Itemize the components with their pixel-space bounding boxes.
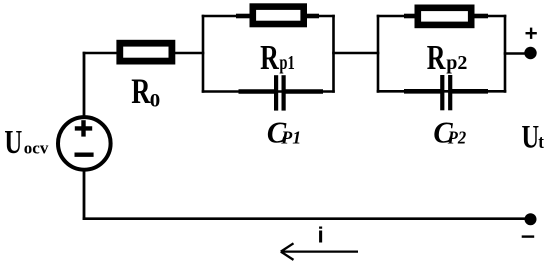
wire: source bottom vertical bbox=[83, 170, 86, 220]
resistor Rp2 bbox=[418, 8, 471, 25]
capacitor Cp2 lead stubs bbox=[404, 89, 441, 94]
wire: R0 to RC block 1 bbox=[173, 52, 204, 55]
node: RC block 1 left vertical bbox=[202, 15, 205, 93]
svg-text:R: R bbox=[260, 38, 279, 77]
wire: top-left horizontal from source to R0 bbox=[83, 52, 122, 55]
svg-text:i: i bbox=[318, 222, 324, 247]
voltage source Uocv circle bbox=[58, 117, 111, 170]
svg-text:R: R bbox=[131, 71, 151, 111]
label Rp2 bbox=[427, 38, 446, 77]
svg-text:p1: p1 bbox=[279, 51, 294, 74]
label Uocv bbox=[4, 125, 22, 161]
resistor R0 bbox=[120, 43, 172, 61]
svg-text:U: U bbox=[4, 125, 22, 161]
wire: RC block 2 bottom rail bbox=[377, 90, 507, 93]
resistor Rp2 lead stubs bbox=[404, 14, 418, 19]
minus sign at terminal bbox=[522, 235, 535, 237]
node: RC block 1 right vertical bbox=[332, 15, 335, 93]
capacitor Cp2 plates bbox=[440, 75, 444, 110]
capacitor Cp1 plates bbox=[274, 75, 278, 110]
label Cp1 bbox=[267, 116, 287, 150]
plus sign inside source bbox=[75, 126, 92, 130]
wire: RC block 2 top rail bbox=[377, 15, 507, 18]
label Rp1 bbox=[260, 38, 279, 77]
svg-text:ocv: ocv bbox=[24, 139, 49, 158]
wire: block 1 to block 2 bbox=[332, 52, 379, 55]
svg-text:t: t bbox=[538, 131, 544, 152]
svg-text:P2: P2 bbox=[447, 128, 467, 148]
wire: RC block 1 bottom rail bbox=[202, 90, 335, 93]
node: RC block 2 right vertical bbox=[504, 15, 507, 93]
node: RC block 2 left vertical bbox=[377, 15, 380, 93]
resistor Rp1 lead stubs bbox=[236, 14, 252, 19]
svg-text:U: U bbox=[522, 119, 540, 155]
resistor Rp1 bbox=[253, 7, 304, 24]
svg-text:P1: P1 bbox=[280, 128, 301, 148]
capacitor Cp1 lead stubs bbox=[239, 89, 276, 94]
wire: block 2 to positive terminal bbox=[504, 52, 528, 55]
svg-text:p2: p2 bbox=[446, 52, 467, 74]
label Ut bbox=[522, 119, 540, 155]
wire: bottom rail bbox=[83, 217, 531, 220]
node: negative terminal dot bbox=[525, 213, 537, 225]
svg-text:0: 0 bbox=[150, 90, 160, 111]
minus sign inside source bbox=[75, 152, 94, 156]
current arrow bbox=[283, 250, 358, 252]
label R0 bbox=[131, 71, 151, 111]
node: positive terminal dot bbox=[524, 47, 536, 59]
wire: left vertical from top wire down to source top bbox=[83, 52, 86, 117]
label Cp2 bbox=[433, 116, 453, 150]
plus sign at terminal bbox=[526, 32, 537, 34]
wire: RC block 1 top rail bbox=[202, 15, 335, 18]
svg-text:R: R bbox=[427, 38, 446, 77]
